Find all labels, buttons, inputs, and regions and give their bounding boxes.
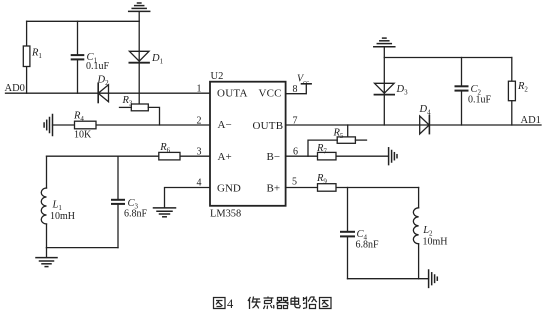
wire bottom-left horizontal (47, 247, 119, 249)
svg-text:6.8nF: 6.8nF (356, 240, 380, 251)
svg-text:A+: A+ (218, 151, 232, 163)
ground G2 side earth (pin2 left) (44, 115, 52, 136)
svg-text:B−: B− (267, 151, 281, 163)
caption char 图 (2) (320, 298, 332, 309)
wire C1 branch lower (77, 61, 79, 94)
svg-text:6.8nF: 6.8nF (124, 209, 148, 220)
wire pin7 / AD1 line (286, 124, 541, 126)
caption char 感 (264, 297, 274, 310)
capacitor C3 (112, 200, 124, 204)
wire L2 branch lower (418, 244, 420, 279)
svg-text:D2: D2 (97, 75, 110, 88)
ground G6 top-right inverted earth (374, 38, 395, 47)
caption char 传 (248, 297, 261, 310)
svg-text:1: 1 (197, 84, 202, 95)
svg-text:4: 4 (227, 297, 234, 311)
wire pin3 line (47, 155, 211, 157)
wire pin8 + Vcc power symbol (286, 84, 307, 94)
capacitor C1 (72, 55, 84, 59)
caption char 电 (291, 296, 300, 308)
capacitor C2 (461, 58, 463, 86)
svg-text:7: 7 (293, 116, 298, 127)
wire C3 branch upper (117, 156, 119, 199)
ground G4 (pin 4) (154, 208, 176, 217)
inductor L1 (41, 188, 46, 224)
svg-text:AD0: AD0 (5, 83, 25, 94)
svg-text:D1: D1 (151, 53, 164, 66)
svg-text:6: 6 (293, 147, 298, 158)
resistor R9 (318, 184, 337, 192)
svg-text:U2: U2 (211, 71, 224, 82)
op-amp U2 box (210, 82, 286, 206)
svg-text:D3: D3 (396, 84, 409, 97)
wire L2 branch upper (418, 188, 420, 208)
caption char 器 (277, 298, 289, 309)
ground G1 top-left inverted earth (129, 3, 150, 11)
caption char 路 (303, 297, 317, 309)
svg-text:10mH: 10mH (423, 237, 448, 248)
caption char 图 (1) (214, 298, 226, 309)
svg-text:R9: R9 (316, 173, 327, 186)
svg-text:R2: R2 (517, 81, 528, 94)
diode D3 (375, 83, 395, 93)
svg-text:B+: B+ (267, 183, 281, 195)
svg-text:8: 8 (293, 84, 298, 95)
resistor R3 (131, 104, 148, 111)
diode D4 (420, 116, 430, 134)
svg-text:0.1uF: 0.1uF (468, 95, 492, 106)
wire L1 branch lower (46, 224, 48, 248)
svg-text:Vcc: Vcc (297, 74, 309, 87)
resistor R6 (159, 152, 180, 160)
svg-text:10mH: 10mH (50, 211, 75, 222)
wire top-right horizontal (384, 57, 512, 59)
wire AD0 line to pin 1 (6, 92, 211, 94)
svg-text:0.1uF: 0.1uF (86, 61, 110, 72)
svg-text:R7: R7 (316, 143, 327, 156)
svg-text:A−: A− (218, 119, 232, 131)
caption: 图4 传感器电路图 (hand-drawn CJK glyphs) (214, 296, 332, 311)
wire top-left horizontal (27, 20, 140, 22)
svg-text:LM358: LM358 (210, 209, 241, 220)
resistor R7 (318, 152, 337, 160)
svg-text:AD1: AD1 (521, 115, 541, 126)
wire bottom-right horizontal (348, 278, 429, 280)
wire pin5 line (286, 187, 419, 189)
resistor R4 (75, 121, 97, 129)
wire C4 branch lower (347, 237, 349, 278)
resistor R1 (23, 46, 30, 67)
ground G7 side earth (bottom right) (429, 270, 438, 287)
wire D3 vertical column (383, 47, 385, 125)
svg-text:10K: 10K (74, 130, 92, 141)
diode D1 (129, 51, 149, 61)
wire pin4 to ground (165, 188, 211, 208)
svg-text:3: 3 (197, 147, 202, 158)
svg-text:OUTB: OUTB (253, 120, 284, 132)
capacitor C4 (341, 232, 354, 237)
resistor R5 (347, 125, 349, 137)
svg-text:2: 2 (197, 116, 202, 127)
wire C3 branch lower (117, 205, 119, 248)
wire pin2 line (53, 124, 211, 126)
wire C4 branch upper (347, 188, 349, 231)
wire R1 vertical branch (26, 21, 28, 93)
inductor L2 (413, 208, 418, 244)
svg-text:5: 5 (292, 177, 297, 188)
diode D2 (97, 84, 99, 103)
wire L1 branch upper (46, 156, 48, 188)
svg-text:R1: R1 (31, 48, 42, 61)
ground G5 side earth (pin6) (389, 148, 397, 165)
wire pin6 line (286, 155, 389, 157)
svg-text:R4: R4 (73, 111, 84, 124)
resistor R2 (511, 58, 513, 82)
svg-text:R6: R6 (159, 142, 170, 155)
wire C1 branch upper (77, 21, 79, 54)
svg-text:4: 4 (197, 178, 202, 189)
svg-text:VCC: VCC (259, 88, 282, 100)
wire D1/R3 vertical column (138, 12, 140, 104)
svg-text:R5: R5 (333, 128, 344, 141)
svg-text:OUTA: OUTA (217, 88, 248, 100)
svg-text:R3: R3 (122, 95, 133, 108)
svg-text:D4: D4 (419, 104, 432, 117)
svg-text:GND: GND (217, 183, 241, 195)
ground G3 under L1 (46, 248, 48, 258)
